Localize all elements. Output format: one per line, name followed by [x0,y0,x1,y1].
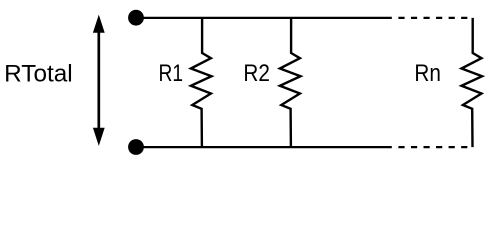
wire: bottom rail solid [136,146,392,148]
resistor R1 [191,18,212,147]
wire: top rail dashed continuation [398,17,467,19]
wire: bottom rail dashed continuation [398,146,467,148]
node: bottom-left terminal dot [128,139,144,155]
wire: top rail solid [136,17,392,19]
resistor Rn [462,18,483,147]
svg-text:RTotal: RTotal [4,61,73,88]
measurement arrow (double-headed) [93,15,105,146]
node: top-left terminal dot [128,10,144,26]
svg-text:Rn: Rn [414,60,441,87]
svg-text:R2: R2 [243,60,270,87]
resistor R2 [280,18,301,147]
svg-text:R1: R1 [159,60,184,87]
